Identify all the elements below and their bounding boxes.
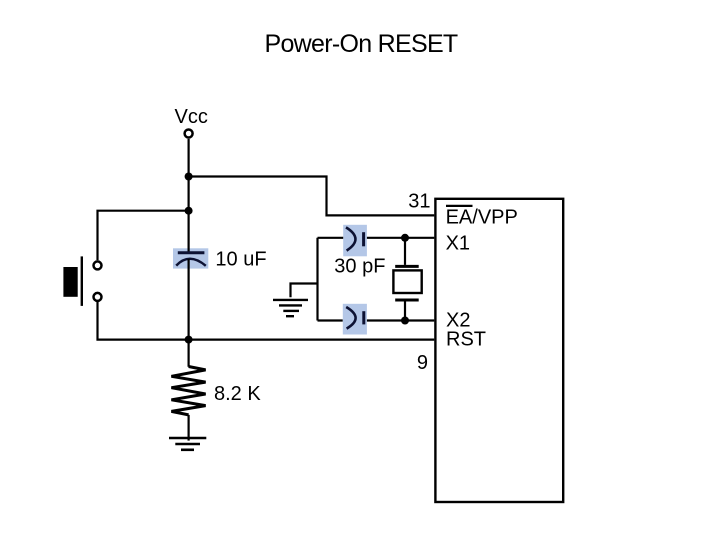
- svg-text:8.2 K: 8.2 K: [214, 383, 261, 405]
- crystal Y1 bottom plate: [395, 299, 419, 302]
- wire C3 right to X2 pin: [367, 319, 434, 321]
- capacitor C1 top plate: [178, 251, 205, 254]
- capacitor C1 10uF highlight: [173, 248, 208, 268]
- wire vertical bus between caps: [316, 238, 318, 321]
- svg-text:30 pF: 30 pF: [334, 255, 385, 277]
- capacitor C3 straight plate: [362, 311, 365, 324]
- junction A: [185, 173, 193, 181]
- crystal Y1 bottom lead: [404, 302, 406, 321]
- svg-text:EA/VPP: EA/VPP: [446, 206, 518, 228]
- wire junction B left and down to switch top: [98, 211, 189, 260]
- crystal Y1 top lead: [404, 238, 406, 265]
- pushbutton actuator bar: [81, 256, 83, 306]
- capacitor C1 curved plate: [176, 259, 206, 266]
- wire C2 right to X1 pin: [367, 237, 434, 239]
- crystal Y1 body: [393, 270, 421, 293]
- wire Vcc to junction A: [188, 139, 190, 177]
- svg-text:RST: RST: [446, 329, 486, 351]
- capacitor C2 30pF highlight: [343, 225, 367, 256]
- svg-text:31: 31: [408, 191, 430, 213]
- wire junction B to C1 top plate: [188, 211, 190, 253]
- ground near C2/C3: [273, 300, 308, 316]
- wire junction C to R1: [188, 340, 190, 367]
- wire ground stub from bus: [291, 284, 318, 298]
- pushbutton switch cap: [63, 267, 77, 297]
- crystal Y1 top plate: [395, 265, 419, 268]
- pushbutton bottom contact: [94, 293, 102, 301]
- junction D: [401, 234, 409, 242]
- wire R1 to ground: [188, 415, 190, 441]
- wire switch bottom down and right to junction C: [98, 302, 189, 340]
- capacitor C2 curved plate: [346, 227, 355, 250]
- wire bus to C3 left: [318, 319, 343, 321]
- pushbutton top contact: [94, 261, 102, 269]
- wire EA/VPP net (junction A right, down, to pin 31): [189, 177, 435, 216]
- junction E: [401, 317, 409, 325]
- wire RST net junction C to pin 9: [189, 339, 435, 341]
- svg-text:9: 9: [417, 352, 428, 374]
- wire C2 left to vertical bus: [318, 237, 344, 239]
- wire junction A to junction B: [188, 177, 190, 211]
- capacitor C3 30pF highlight: [343, 304, 367, 335]
- resistor R1 8.2K zigzag: [171, 367, 205, 415]
- junction B: [185, 207, 193, 215]
- junction C: [185, 336, 193, 344]
- wire C1 to junction C: [188, 259, 190, 340]
- capacitor C2 straight plate: [362, 232, 365, 246]
- ground below R1: [169, 438, 206, 450]
- svg-text:Power-On RESET: Power-On RESET: [264, 30, 457, 58]
- capacitor C3 curved plate: [346, 307, 355, 329]
- svg-text:Vcc: Vcc: [175, 106, 208, 128]
- overline over EA: [446, 205, 473, 207]
- Vcc terminal circle: [185, 130, 193, 138]
- svg-text:10 uF: 10 uF: [215, 248, 266, 270]
- svg-text:X1: X1: [446, 232, 470, 254]
- microcontroller U1 body: [435, 199, 563, 502]
